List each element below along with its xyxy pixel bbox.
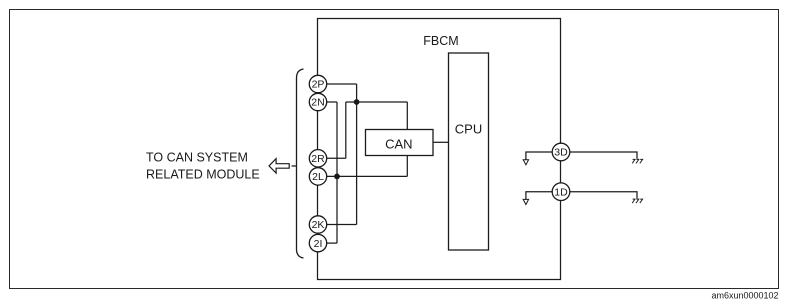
svg-text:3D: 3D <box>554 147 568 159</box>
svg-text:2N: 2N <box>311 97 324 109</box>
wire CAN block to CPU <box>433 141 449 143</box>
pin 2R <box>309 150 326 167</box>
wire 2R riser to CAN-H <box>345 102 347 158</box>
arrow to CAN system related module <box>269 159 289 173</box>
wire pin 2N <box>327 101 338 103</box>
wire 2K to CAN-H bus <box>327 224 357 226</box>
pin 2N <box>309 93 326 110</box>
svg-text:2L: 2L <box>312 171 324 183</box>
wire CAN-H vertical bus 2P to 2K <box>356 84 358 225</box>
wire CAN-H horizontal to CAN block <box>346 101 408 103</box>
pin 2K <box>309 216 326 233</box>
wire pin 1D internal ground lead <box>526 192 552 200</box>
wire pin 3D internal ground lead <box>526 152 552 160</box>
label FBCM <box>423 34 458 48</box>
wire pin 3D chassis lead <box>570 152 637 159</box>
wire brace tick <box>292 165 297 167</box>
block CPU <box>449 53 489 250</box>
pin 3D <box>552 143 570 161</box>
wire pin 2L to CAN block riser <box>327 175 408 177</box>
svg-text:2K: 2K <box>312 219 325 231</box>
ground (module internal) at 1D <box>523 199 528 204</box>
ground (module internal) at 3D <box>523 160 528 165</box>
svg-text:2P: 2P <box>312 79 325 91</box>
svg-text:1D: 1D <box>554 186 568 198</box>
figure id am6xun0000102 <box>711 291 778 301</box>
pin 1D <box>552 183 570 201</box>
wire CAN-H horizontal from pin 2P <box>327 83 357 85</box>
wire CAN-L riser from CAN block bottom <box>406 156 408 177</box>
wire CAN-H drop into CAN block top <box>406 102 408 130</box>
svg-text:RELATED MODULE: RELATED MODULE <box>146 167 260 181</box>
pin 2I <box>309 234 326 251</box>
pin 2P <box>309 75 326 92</box>
brace connector group <box>297 69 304 258</box>
junction CAN-H node <box>354 99 360 105</box>
svg-text:CAN: CAN <box>385 137 412 152</box>
chassis ground at 3D <box>632 159 642 163</box>
svg-text:FBCM: FBCM <box>423 34 458 48</box>
wire pin 2I <box>327 242 338 244</box>
wire pin 2R <box>327 157 346 159</box>
svg-text:2I: 2I <box>314 238 323 250</box>
svg-text:TO CAN SYSTEM: TO CAN SYSTEM <box>146 151 248 165</box>
block CAN <box>366 130 434 156</box>
svg-text:CPU: CPU <box>455 122 482 137</box>
chassis ground at 1D <box>632 199 642 203</box>
pin 2L <box>309 168 326 185</box>
junction CAN-L node <box>334 174 340 180</box>
wire CAN-L vertical bus 2N to 2I <box>336 102 338 243</box>
svg-text:2R: 2R <box>311 153 325 165</box>
wire pin 1D chassis lead <box>570 192 637 199</box>
svg-text:am6xun0000102: am6xun0000102 <box>711 291 778 301</box>
module FBCM box <box>318 19 561 280</box>
net label TO CAN SYSTEM RELATED MODULE <box>146 151 260 182</box>
